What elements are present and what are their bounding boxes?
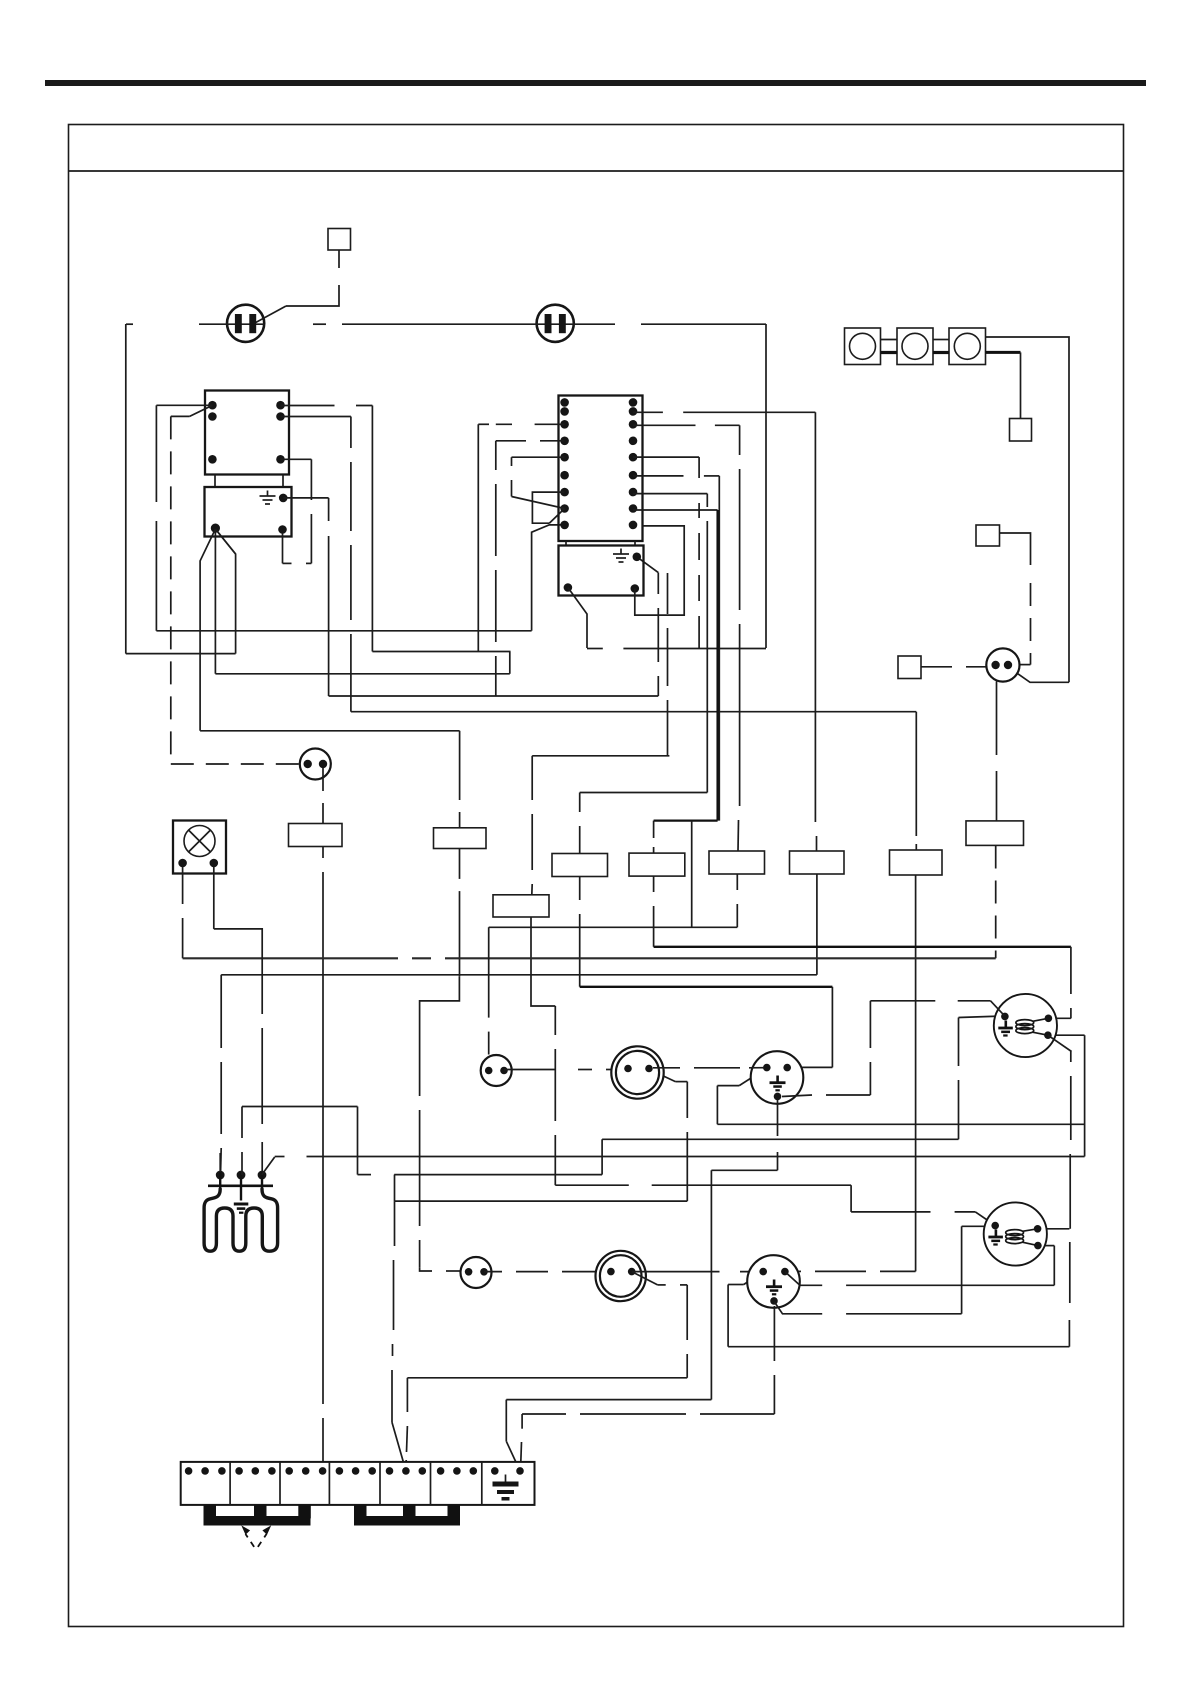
wire timer pin7 right to x707 [633, 493, 707, 495]
wire bus y1347 [728, 1346, 1069, 1348]
wire y1082 to diagonal [675, 1081, 687, 1083]
wire diagonal into earth terminal [506, 1441, 520, 1471]
node square SQ2 [1010, 419, 1032, 442]
wire K1 sub bottom-right pin to top box pin link [281, 459, 312, 563]
coil in P1 [1016, 1018, 1049, 1035]
thermostat T2 (double circle, lower) [596, 1251, 646, 1301]
wire x687 drop [686, 1285, 688, 1378]
wire jog to x419 [420, 976, 460, 1096]
wire bus y674 [215, 673, 509, 675]
wire x1054 riser [1053, 1246, 1055, 1286]
grill element R1 pin stubs [220, 1172, 262, 1201]
wire x667 dashed riser [667, 573, 669, 756]
ground symbol in P1 [998, 1021, 1013, 1037]
node square S1 (top-left small box) [328, 229, 351, 251]
fuse FR2 [493, 895, 549, 917]
wire element left pin upper stub [219, 1153, 221, 1172]
ground symbol in K1 sub box [260, 491, 276, 505]
wire timer pin5 left to x511 [512, 456, 565, 458]
wire diagonal pin7 jog to pin8 [549, 509, 564, 524]
fuse F2 [289, 824, 343, 847]
link bar right (thick jumper) [354, 1505, 460, 1526]
wire element middle pin riser to bus1106 [241, 1107, 243, 1175]
wire y1095 dashed into P3 bottom [782, 1095, 870, 1097]
wire y927 link [489, 926, 738, 928]
grill element R1 pins [216, 1171, 225, 1180]
wire bus y1139 [602, 1138, 958, 1140]
wire X6 right pin diagonal [785, 1272, 800, 1286]
wire J1 bottom drop [996, 682, 998, 821]
relay K1 pins right [276, 401, 285, 410]
wire diagonal into B5 middle [392, 1422, 406, 1471]
wire H3 to x1069 drop [986, 337, 1070, 682]
fuse F5 [709, 851, 765, 874]
relay K1 top box [205, 391, 289, 475]
link arrows (dashed) [241, 1525, 271, 1549]
wire timer pin8 right to x717 [633, 509, 718, 511]
wire x1070 dashed drop to P1 top right pin [1070, 947, 1072, 1019]
wire F5 down to y927 [736, 874, 738, 927]
wire x832 drop [831, 987, 833, 1068]
node square SQ4 [898, 656, 921, 679]
wire x407 drop to B5 [406, 1378, 407, 1471]
timer U1 pins left column [560, 398, 569, 529]
diagram border frame [69, 125, 1124, 1627]
wire x739 drop to F5 [738, 425, 740, 851]
wire diagonal into thermostat T1 right pin [650, 1070, 676, 1082]
wire y1170 link [711, 1169, 777, 1171]
wire H3 lower to SQ2 [986, 351, 1021, 354]
wire x357 drop [357, 1107, 359, 1175]
wire K1 sub left pin diagonal right branch [215, 529, 235, 554]
wire y1285 dashed [658, 1284, 688, 1286]
wire x961 riser [961, 1226, 963, 1314]
wire lamp links bottom [881, 351, 950, 354]
coil in P2 [1006, 1229, 1038, 1246]
wire x221 dashed drop to element [220, 975, 223, 1175]
wire timer pin7 left jog [532, 492, 564, 523]
wire y1017 into P1 left pin [959, 1016, 1004, 1018]
wire x870 dashed drop [869, 1001, 871, 1095]
page top rule [45, 80, 1146, 86]
wire K1 pin1 left run [156, 404, 212, 406]
wire P1 lower-right pin to x1084 [1048, 1034, 1085, 1036]
ground symbol under element middle pin [234, 1203, 249, 1214]
fuse F4 [552, 854, 608, 877]
wire x156 drop [155, 405, 157, 631]
wire F44 down dashed then heavy [653, 876, 655, 947]
relay K1 pins left [208, 401, 217, 410]
wire x1069 to junction circle J1 [1016, 673, 1069, 683]
wire x717 heavy drop [716, 510, 718, 821]
relay K1 joining stubs [214, 475, 216, 488]
grill plug P2 (lower) [984, 1202, 1047, 1265]
wire x699 dashed drop [698, 457, 700, 648]
wire K1 sub left pin diagonal left branch [200, 529, 215, 731]
socket X3 (2-pin small, lower) [461, 1257, 492, 1288]
wire timer pin4 left dashed to x496 [496, 440, 565, 442]
wire x958 riser [958, 1018, 960, 1140]
wire X1 feed from above [488, 927, 490, 1054]
wire K1 sub pin to x328 drop [283, 497, 328, 499]
terminal block dividers [230, 1462, 482, 1505]
wire x394 drop to terminal B5 [392, 1175, 395, 1423]
wire x815 drop to F6 [815, 412, 816, 851]
wire y1414 dashed left [522, 1413, 774, 1415]
wire K1 sub left pin three-way: straight drop x215 [214, 529, 216, 674]
wire P1 left pin diagonal [991, 1001, 1005, 1016]
wire x1084 riser [1084, 1035, 1086, 1156]
wire T2 right pin run to x711 crossing [632, 1271, 720, 1273]
wire x496 dashed drop to y696 [495, 441, 497, 696]
wire diagonal into X6 left pin [744, 1272, 764, 1285]
indicator lamp chain: square H3 [949, 328, 986, 365]
wire bus y1106 [242, 1106, 358, 1108]
indicator lamp chain: square H2 [897, 328, 933, 365]
oven lamp E1 box [173, 821, 226, 874]
wire y1400 link [506, 1399, 711, 1401]
wire into socket X3 [420, 1268, 461, 1271]
wire diagonal into P2 left pin [975, 1212, 994, 1225]
thermostat T1 (double circle) [611, 1046, 663, 1098]
wire main line right drop x766 [765, 324, 767, 648]
wire bus y631 [156, 630, 531, 632]
ground symbol in P3 [770, 1076, 786, 1092]
grill plug P1 (upper) [994, 994, 1057, 1057]
wire FR2 bottom jog [531, 917, 555, 1006]
socket X6 (4-pin with earth, lower) [747, 1255, 800, 1308]
wire x555 drop [554, 1006, 556, 1185]
wire y648 dashed bus [587, 648, 766, 650]
relay K1 sub box [205, 487, 292, 537]
wire x915 long drop [915, 875, 917, 1271]
wire stub into P1 [1049, 1017, 1071, 1019]
wire lamp links top [881, 339, 950, 341]
wire x372 drop [371, 406, 373, 652]
wire y1124 link [717, 1123, 1084, 1125]
wire main line left drop x126 [125, 324, 127, 654]
wire X6 bottom pin dashed right [774, 1302, 961, 1314]
wire x1070 dashed long drop [1069, 1051, 1070, 1347]
wire S1 down [338, 250, 340, 268]
wire F6 down to bus975 [816, 874, 818, 975]
wire X3 to T2 dashed [484, 1271, 595, 1273]
wire x478 drop [477, 424, 479, 651]
wire diagonal into P3 top-left pin [739, 1069, 766, 1086]
ground symbol in P2 [988, 1230, 1003, 1246]
wire y1201 link [395, 1200, 688, 1202]
wire x506 drop [505, 1400, 507, 1442]
wire x653 dashed drop to F44 [653, 821, 655, 854]
wire y764 dashed to J2 [171, 763, 300, 765]
fuse F6 [790, 851, 845, 874]
wire timer pin3 right to x739 [633, 424, 740, 426]
wire T2 right pin diagonal [632, 1272, 658, 1285]
wire x851 drop [850, 1185, 852, 1212]
wire K1 pin1 diagonal [190, 405, 213, 416]
wire into P2 bottom-right pin [1039, 1245, 1054, 1247]
wire diagonal to timer ground pin [637, 557, 659, 573]
socket P3 (4-pin with earth, upper) [751, 1051, 804, 1104]
wire lamp left pin down to bus958 [182, 867, 184, 958]
wire x602 riser [601, 1139, 603, 1174]
wire J2 drop to F2 [322, 768, 324, 824]
wire y1284 to diagonal [728, 1284, 744, 1286]
wire x916 drop to R7 fuse [915, 712, 917, 850]
link bar left (thick jumper) [204, 1505, 311, 1526]
wire diagonal to pin8 [512, 497, 565, 509]
wire P1 lower-right pin diagonal to x1071 [1048, 1035, 1072, 1051]
wire bus y792 [580, 792, 708, 794]
wire main line L (y324) [126, 323, 766, 325]
thermal cutout TH1 [227, 305, 286, 342]
wire y1001 dashed [870, 1000, 990, 1002]
grill element R1 top bar [208, 1184, 273, 1187]
fuse F1 [434, 828, 487, 849]
timer U1 joining stubs [565, 541, 567, 546]
wire y1285 dashed to x1054 [800, 1284, 1054, 1286]
wire y653 bus [126, 653, 236, 655]
indicator lamp chain: square H1 [845, 328, 881, 365]
wire x235 riser [215, 529, 235, 654]
wire K1 right pin2 to x351 [281, 416, 351, 418]
wire x351 dashed drop [350, 417, 352, 712]
wire T1 right pin to P3 left pin [653, 1067, 764, 1069]
wire y1185 run [555, 1184, 851, 1186]
wire U1 ground pin diagonal (drawn above) / sub left pin diagonal [568, 588, 587, 649]
wire timer pin5 right to x699 [633, 456, 699, 458]
wire bus y958 [183, 957, 996, 959]
grill element R1 serpentine body [204, 1189, 278, 1251]
wire x579 drop to F4 [579, 793, 581, 854]
wire bus y987 heavy [580, 986, 833, 988]
terminal dots [185, 1467, 524, 1475]
wire F1 down dashed [459, 849, 461, 879]
wire bus y712 [351, 711, 916, 713]
wire x531 riser to timer pin9 [532, 525, 565, 631]
oven lamp E1 circle with cross [184, 826, 215, 857]
wire into P2 left pin [962, 1225, 984, 1227]
ground symbol in U1 sub box [613, 549, 629, 563]
fuse F7 [890, 850, 943, 875]
wire lamp right pin jog [214, 867, 262, 1175]
wire x707 drop [706, 494, 708, 793]
wire x171 dashed drop [170, 416, 172, 764]
wire x511 dashed drop [511, 457, 513, 496]
wire SQ4 to J1 [921, 666, 987, 668]
timer U1 pins right column [629, 398, 638, 529]
wire F4 down [579, 877, 581, 987]
wire F3 down to bus958 [995, 846, 997, 959]
wire y821 heavy [654, 819, 718, 821]
wire F2 down long to terminal B3 [322, 847, 324, 1471]
wire y1212 run [851, 1211, 975, 1213]
wire x728 riser [727, 1285, 729, 1347]
wire K1 right pin1 dashed to x372 [281, 405, 373, 407]
wire x459 drop to F1 [459, 731, 461, 800]
wire x717 lower segment [716, 1086, 718, 1125]
wire y1271 dashed into socket X6 right pin [789, 1270, 916, 1272]
wire x687 riser [686, 1082, 688, 1202]
header divider line [69, 170, 1124, 172]
wire A y1157 long run [275, 1156, 1085, 1158]
wire SQ3 to x1030 drop [1000, 533, 1031, 565]
node square SQ3 [976, 525, 1000, 546]
oven lamp E1 pins [178, 859, 187, 868]
wire timer pin6 right [633, 475, 719, 477]
wire element right pin diagonal to wireA [262, 1157, 275, 1175]
wire y1174 dashed [358, 1174, 603, 1176]
wire y1085 to diagonal [717, 1085, 739, 1087]
wire bus y731 [200, 730, 460, 732]
wire U1 sub right pin to pin9 link [635, 526, 684, 615]
wire timer pin2 right dashed to x815 [633, 411, 815, 413]
wire timer pin3 left dashed to x478 [478, 423, 564, 425]
wire stub into P2 [1039, 1228, 1070, 1230]
wire y756 jog [532, 755, 669, 757]
fuse F44 [629, 853, 685, 876]
ground symbol in X6 [766, 1280, 782, 1296]
wire x510 jog up [509, 652, 511, 674]
wire x711 long drop [710, 1170, 712, 1399]
wire y651 link [372, 651, 510, 653]
wire bus y975 [221, 974, 817, 976]
wire bus y696 [329, 695, 659, 697]
wire y1378 link [407, 1377, 687, 1379]
wire P3 bottom pin drop [777, 1100, 779, 1170]
wire x719 drop [718, 476, 720, 821]
thermal cutout TH2 [537, 305, 574, 342]
wire into P3 top right pin [790, 1066, 833, 1068]
wire x658 riser [657, 573, 659, 696]
wire x522 drop to earth terminal [521, 1414, 523, 1471]
fuse F3 [966, 821, 1024, 846]
wire x1030 into J1 [1020, 664, 1031, 666]
junction circle J1 (2-pin) [986, 648, 1019, 681]
timer U1 main box [559, 396, 643, 542]
wire y416 stub [171, 415, 190, 417]
wire bus y947 heavy [654, 946, 1071, 948]
wire x691 riser [691, 821, 693, 928]
timer U1 sub box pins [633, 553, 642, 562]
terminal block TB outer [181, 1462, 535, 1505]
socket X1 (2-pin small, upper) [481, 1055, 512, 1086]
timer U1 sub box [559, 546, 644, 596]
wire x532 dashed feed from jog into FR2 top [531, 756, 533, 895]
wire X1 to T1 dashed [504, 1069, 612, 1071]
wire X6 bottom straight drop [773, 1306, 775, 1414]
relay K1 sub box pins [279, 494, 288, 503]
junction circle J2 (2-pin) [300, 749, 331, 780]
earth terminal ground symbol [493, 1475, 519, 1501]
